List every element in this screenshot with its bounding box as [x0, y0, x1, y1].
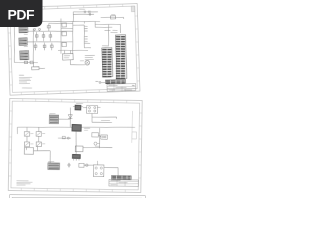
sheet 2 revision box [132, 111, 137, 143]
title block sheet1 [107, 83, 136, 91]
notes text sheet1 [19, 75, 32, 84]
wire to P1 [104, 24, 118, 45]
wire left drop [16, 127, 18, 134]
capacitor C10 [94, 142, 100, 145]
wire feed line B [73, 14, 94, 15]
IC U5 [62, 23, 67, 27]
wire vertical net [32, 29, 34, 63]
capacitor C1 [34, 28, 36, 31]
notes text sheet2 [16, 181, 32, 186]
capacitor C2 [39, 28, 41, 31]
resistor R7 [14, 61, 37, 64]
wire to P2 [119, 24, 122, 33]
resistor R1 [35, 32, 38, 41]
wire center vertical [72, 22, 74, 54]
IC U3 [72, 154, 81, 161]
wire comb out B [84, 47, 91, 49]
sheet 3 top edge [10, 195, 146, 199]
capacitor C5 [89, 13, 90, 16]
sheet 1 outer border [7, 4, 140, 96]
label U2 [84, 128, 90, 130]
sheet 2 border zone ticks [8, 98, 142, 192]
IC U2 [71, 124, 81, 132]
IC U1 [62, 50, 73, 60]
wire CN1 out [59, 118, 71, 120]
oscillator X1 [73, 103, 83, 110]
wire sense line [101, 14, 124, 19]
wire rail 1 [28, 30, 73, 33]
wire net A [92, 113, 117, 118]
sheet 1 revision box [131, 6, 135, 12]
buzzer LS1 [70, 60, 89, 66]
transistor Q3 [36, 132, 45, 137]
wire bus 61 [60, 19, 62, 54]
sheet 2 inner border [11, 101, 140, 190]
wire join right [94, 21, 96, 27]
wire stub mid [61, 27, 73, 30]
logo mark [96, 81, 106, 83]
sheet 1 border zone ticks [7, 4, 140, 96]
sheet 1 scanned page [7, 4, 140, 96]
wire comb stubs [84, 26, 88, 41]
transistor Q2 [24, 132, 33, 137]
PDF badge [0, 0, 43, 27]
pin header P2 [113, 30, 127, 79]
wire left bus [13, 27, 15, 62]
jumper block JP1 [87, 105, 98, 113]
wire right rail A [95, 24, 120, 26]
net label top [79, 8, 85, 10]
wire net B [92, 117, 112, 123]
wire K1 drop [37, 146, 50, 163]
wire CN2 right [104, 167, 118, 175]
connector CN3 [48, 161, 60, 169]
parts table [105, 79, 125, 84]
wire Q rows [27, 127, 39, 142]
svg-text:PDF: PDF [8, 6, 35, 22]
wire rail 2 [27, 40, 72, 43]
connector J3 [20, 51, 29, 62]
wire main bus sheet2 [17, 125, 135, 129]
wire mid low [58, 49, 88, 51]
connector CN2 [93, 161, 104, 177]
connector CN1 [49, 113, 59, 123]
transistor Q4 [24, 142, 33, 147]
transistor Q1 [31, 62, 45, 70]
capacitor C4 [89, 11, 90, 14]
capacitor C3 [84, 11, 85, 14]
sheet 2 outer border [8, 98, 142, 192]
diode D10 [68, 107, 73, 127]
parts table sheet2 [111, 175, 131, 179]
wire X1 JP1 [83, 106, 87, 108]
LED D5 [68, 163, 70, 168]
wire mid bus [43, 20, 100, 24]
resistor R3 [49, 32, 52, 41]
diode D3 [50, 43, 53, 51]
wire stub drop [83, 21, 85, 23]
IC U4 [75, 146, 112, 152]
resistor R10 [79, 163, 94, 167]
wire comb out A [84, 42, 90, 44]
label group U1 [85, 55, 95, 60]
wire fuse feed [49, 23, 73, 25]
resistor R13 [58, 136, 71, 139]
IC U7 [62, 42, 67, 46]
note near border [22, 87, 32, 90]
wire comb spine [73, 25, 85, 48]
diode D2 [43, 43, 46, 51]
IC U6 [62, 32, 67, 36]
resistor R2 [42, 32, 45, 41]
resistor R11 [92, 133, 99, 137]
connector J2 [19, 38, 28, 47]
pin header P1 [101, 46, 113, 77]
connector J1 [19, 25, 28, 34]
wire feed drop [72, 12, 75, 22]
transistor Q5 [36, 142, 45, 147]
diode D1 [34, 43, 37, 51]
sheet 1 inner border [10, 6, 137, 92]
relay K1 [24, 147, 50, 154]
wire feed line A [73, 11, 98, 13]
sheet 2 scanned page [8, 98, 142, 192]
wire U2 down [75, 131, 78, 154]
wire right rail B [95, 27, 112, 28]
resistor R12 [98, 135, 107, 139]
wire right vertical [98, 128, 101, 148]
title block sheet2 [109, 179, 139, 186]
wire JP1 right [97, 106, 100, 108]
fuse F1 [47, 23, 50, 31]
